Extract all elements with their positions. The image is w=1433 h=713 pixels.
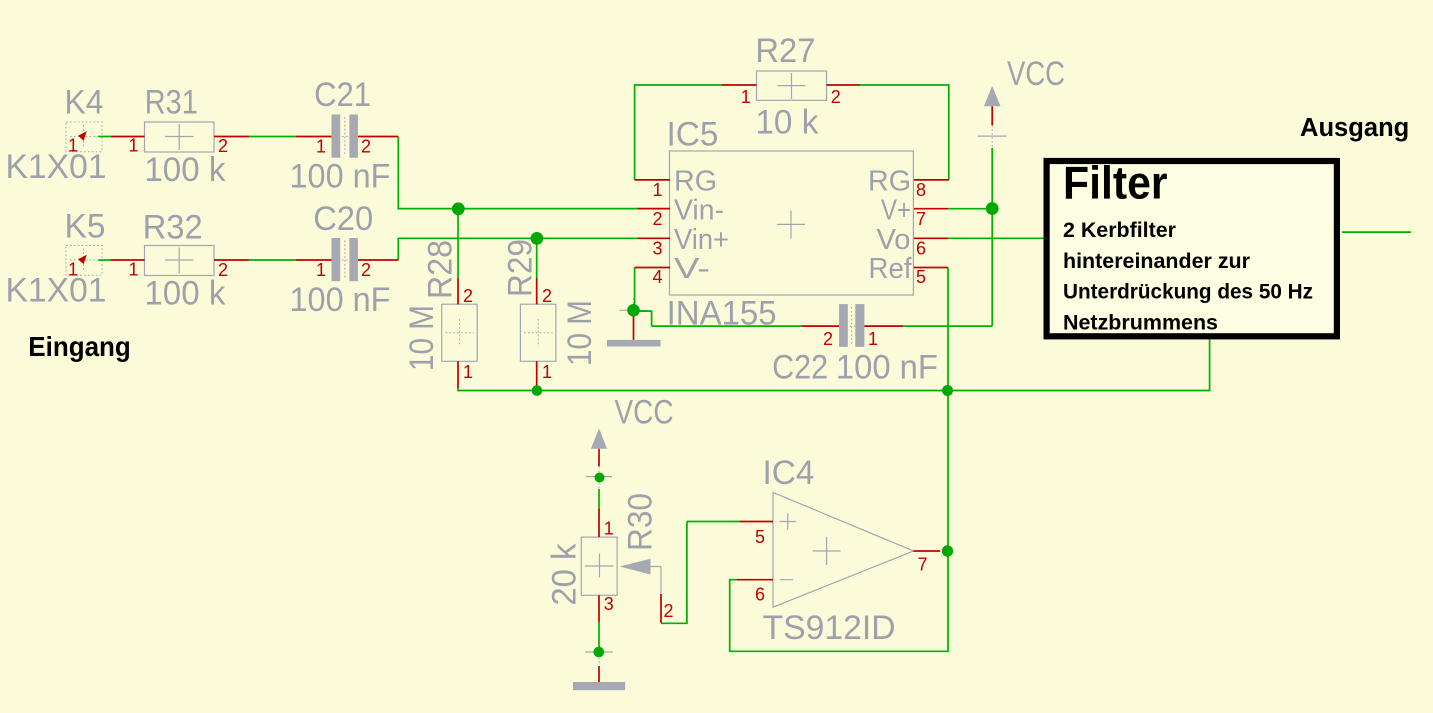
svg-text:2: 2 xyxy=(218,260,228,280)
svg-text:IC4: IC4 xyxy=(763,454,815,492)
svg-text:1: 1 xyxy=(604,519,614,539)
svg-text:C22: C22 xyxy=(772,349,828,387)
svg-text:C20: C20 xyxy=(313,200,373,238)
svg-text:Netzbrummens: Netzbrummens xyxy=(1063,311,1218,335)
svg-text:2: 2 xyxy=(823,329,833,349)
svg-text:TS912ID: TS912ID xyxy=(763,609,896,647)
svg-text:2: 2 xyxy=(664,601,674,621)
svg-text:10 M: 10 M xyxy=(403,305,441,371)
svg-text:V+: V+ xyxy=(881,195,911,227)
svg-text:20 k: 20 k xyxy=(546,543,584,606)
svg-text:1: 1 xyxy=(68,260,78,280)
svg-text:10 k: 10 k xyxy=(755,103,819,141)
svg-text:1: 1 xyxy=(129,260,139,280)
svg-text:2: 2 xyxy=(542,286,552,306)
svg-text:Eingang: Eingang xyxy=(28,331,131,362)
svg-text:1: 1 xyxy=(316,136,326,156)
svg-text:1: 1 xyxy=(868,329,878,349)
svg-text:1: 1 xyxy=(463,362,473,382)
svg-text:VCC: VCC xyxy=(1007,55,1065,93)
svg-text:100 k: 100 k xyxy=(144,151,226,189)
svg-text:RG: RG xyxy=(674,166,717,198)
svg-text:100 nF: 100 nF xyxy=(836,349,938,387)
svg-text:2 Kerbfilter: 2 Kerbfilter xyxy=(1063,218,1177,242)
svg-text:5: 5 xyxy=(755,527,765,547)
svg-text:INA155: INA155 xyxy=(667,294,777,332)
svg-text:Ref: Ref xyxy=(869,253,913,285)
svg-text:3: 3 xyxy=(604,594,614,614)
svg-text:R30: R30 xyxy=(622,493,660,551)
svg-text:3: 3 xyxy=(653,239,663,259)
svg-text:C21: C21 xyxy=(314,76,371,114)
svg-text:Vin-: Vin- xyxy=(674,195,724,227)
svg-text:K4: K4 xyxy=(65,84,104,122)
svg-text:8: 8 xyxy=(916,180,926,200)
svg-text:2: 2 xyxy=(218,136,228,156)
svg-text:1: 1 xyxy=(68,136,78,156)
svg-text:5: 5 xyxy=(916,267,926,287)
svg-text:1: 1 xyxy=(316,260,326,280)
svg-text:Filter: Filter xyxy=(1063,157,1168,209)
svg-text:V-: V- xyxy=(674,253,710,285)
svg-text:Vo: Vo xyxy=(877,224,911,256)
svg-text:4: 4 xyxy=(653,267,663,287)
svg-text:6: 6 xyxy=(916,239,926,259)
svg-text:2: 2 xyxy=(361,260,371,280)
svg-text:100 k: 100 k xyxy=(144,274,226,312)
svg-text:100 nF: 100 nF xyxy=(290,281,391,319)
svg-text:VCC: VCC xyxy=(615,394,674,432)
svg-text:7: 7 xyxy=(916,209,926,229)
svg-text:1: 1 xyxy=(741,87,751,107)
svg-text:2: 2 xyxy=(831,87,841,107)
svg-text:2: 2 xyxy=(653,209,663,229)
svg-text:6: 6 xyxy=(755,585,765,605)
svg-text:1: 1 xyxy=(653,180,663,200)
svg-text:R32: R32 xyxy=(143,209,203,247)
svg-text:R28: R28 xyxy=(422,240,460,299)
svg-text:Unterdrückung des 50 Hz: Unterdrückung des 50 Hz xyxy=(1063,280,1313,304)
svg-text:R27: R27 xyxy=(755,32,815,70)
svg-text:2: 2 xyxy=(463,286,473,306)
svg-text:10 M: 10 M xyxy=(561,300,599,366)
svg-text:R29: R29 xyxy=(502,239,540,297)
svg-text:7: 7 xyxy=(918,555,928,575)
svg-text:RG: RG xyxy=(868,166,911,198)
svg-text:2: 2 xyxy=(361,136,371,156)
svg-text:K1X01: K1X01 xyxy=(6,272,107,310)
svg-text:R31: R31 xyxy=(145,84,198,122)
svg-text:Vin+: Vin+ xyxy=(674,224,729,256)
svg-text:hintereinander zur: hintereinander zur xyxy=(1063,249,1251,273)
svg-text:K5: K5 xyxy=(65,208,106,246)
svg-text:100 nF: 100 nF xyxy=(290,158,391,196)
svg-text:K1X01: K1X01 xyxy=(6,148,107,186)
svg-text:Ausgang: Ausgang xyxy=(1300,114,1409,142)
svg-text:1: 1 xyxy=(542,362,552,382)
svg-text:1: 1 xyxy=(129,136,139,156)
svg-text:IC5: IC5 xyxy=(667,116,719,154)
